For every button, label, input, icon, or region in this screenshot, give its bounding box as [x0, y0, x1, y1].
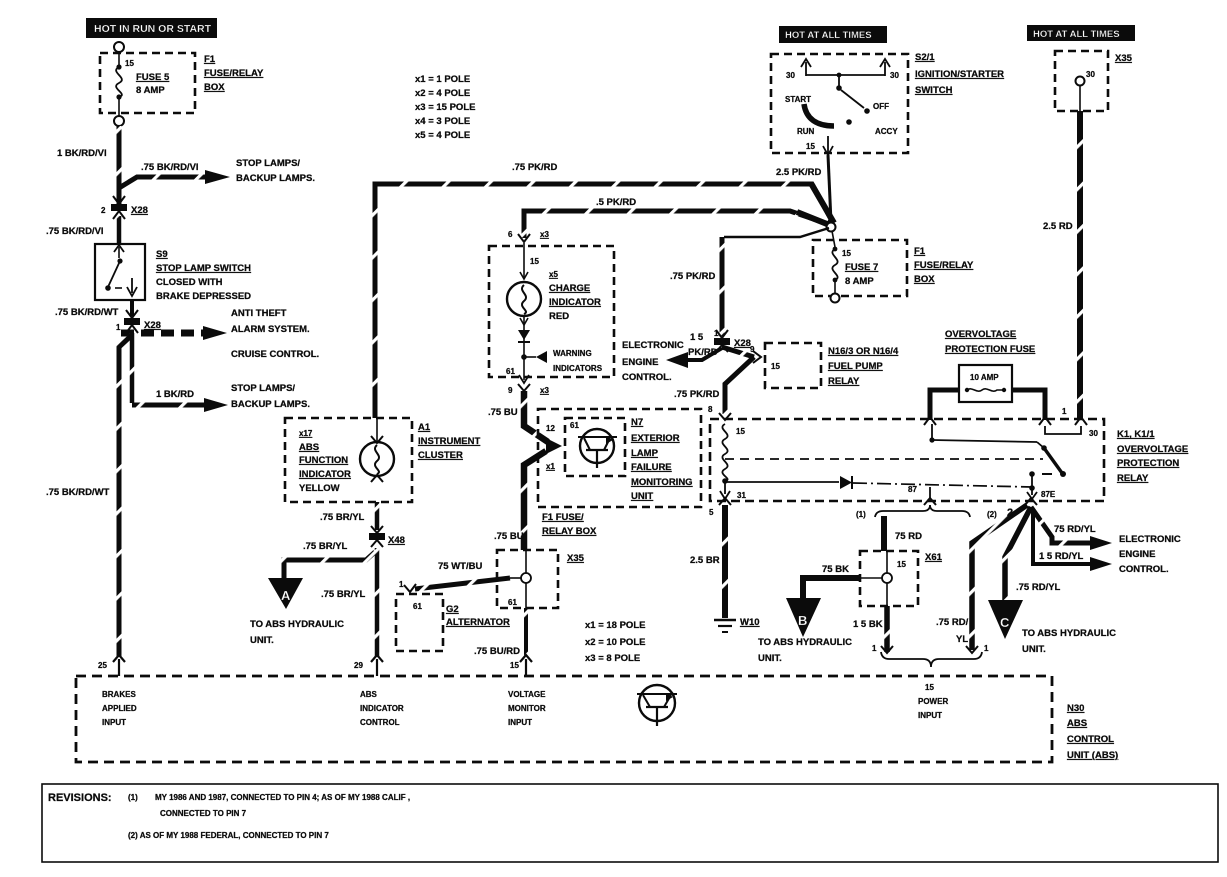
svg-text:BRAKE DEPRESSED: BRAKE DEPRESSED — [156, 291, 251, 302]
svg-text:61: 61 — [570, 421, 579, 430]
svg-text:61: 61 — [508, 598, 517, 607]
svg-text:S9: S9 — [156, 249, 168, 260]
svg-text:(2): (2) — [987, 510, 997, 519]
svg-text:8 AMP: 8 AMP — [845, 276, 874, 287]
svg-text:ELECTRONIC: ELECTRONIC — [622, 340, 684, 351]
svg-text:x3 = 15 POLE: x3 = 15 POLE — [415, 102, 475, 113]
svg-text:1: 1 — [714, 329, 719, 338]
svg-text:INDICATOR: INDICATOR — [549, 297, 601, 308]
svg-text:FAILURE: FAILURE — [631, 462, 672, 473]
svg-text:STOP LAMPS/: STOP LAMPS/ — [231, 383, 295, 394]
svg-text:YL: YL — [956, 634, 968, 645]
svg-text:RED: RED — [549, 311, 569, 322]
svg-text:1: 1 — [872, 644, 877, 653]
svg-text:X28: X28 — [144, 320, 161, 331]
svg-text:YELLOW: YELLOW — [299, 483, 340, 494]
svg-text:CONTROL: CONTROL — [1067, 734, 1114, 745]
svg-text:x1 = 18 POLE: x1 = 18 POLE — [585, 620, 645, 631]
svg-text:ACCY: ACCY — [875, 127, 898, 136]
svg-text:INDICATORS: INDICATORS — [553, 364, 603, 373]
svg-text:TO ABS HYDRAULIC: TO ABS HYDRAULIC — [250, 619, 344, 630]
svg-text:N16/3 OR N16/4: N16/3 OR N16/4 — [828, 346, 899, 357]
svg-text:X28: X28 — [734, 338, 751, 349]
svg-text:30: 30 — [1089, 429, 1098, 438]
svg-text:1: 1 — [1062, 407, 1067, 416]
svg-text:INPUT: INPUT — [508, 718, 532, 727]
svg-text:BOX: BOX — [914, 274, 935, 285]
svg-text:2: 2 — [101, 206, 106, 215]
svg-text:MY 1986 AND 1987, CONNECTED TO: MY 1986 AND 1987, CONNECTED TO PIN 4; AS… — [155, 793, 410, 802]
svg-text:75 RD: 75 RD — [895, 531, 922, 542]
svg-text:15: 15 — [510, 661, 519, 670]
svg-text:RELAY BOX: RELAY BOX — [542, 526, 597, 537]
svg-text:ENGINE: ENGINE — [1119, 549, 1155, 560]
svg-text:x4 = 3 POLE: x4 = 3 POLE — [415, 116, 470, 127]
svg-text:1: 1 — [984, 644, 989, 653]
svg-text:2.5 RD: 2.5 RD — [1043, 221, 1073, 232]
svg-text:1 5 RD/YL: 1 5 RD/YL — [1039, 551, 1084, 562]
svg-text:EXTERIOR: EXTERIOR — [631, 433, 680, 444]
svg-text:X28: X28 — [131, 205, 148, 216]
svg-text:10 AMP: 10 AMP — [970, 373, 999, 382]
svg-text:CHARGE: CHARGE — [549, 283, 590, 294]
svg-text:8 AMP: 8 AMP — [136, 85, 165, 96]
svg-text:1: 1 — [399, 580, 404, 589]
svg-text:PROTECTION FUSE: PROTECTION FUSE — [945, 344, 1035, 355]
svg-text:CLUSTER: CLUSTER — [418, 450, 463, 461]
svg-text:15: 15 — [736, 427, 745, 436]
svg-text:TO ABS HYDRAULIC: TO ABS HYDRAULIC — [758, 637, 852, 648]
svg-text:.75 BU/RD: .75 BU/RD — [474, 646, 520, 657]
svg-text:TO ABS HYDRAULIC: TO ABS HYDRAULIC — [1022, 628, 1116, 639]
svg-text:x3: x3 — [540, 230, 549, 239]
svg-text:STOP LAMPS/: STOP LAMPS/ — [236, 158, 300, 169]
svg-text:ALARM SYSTEM.: ALARM SYSTEM. — [231, 324, 310, 335]
svg-text:.75 BK/RD/WT: .75 BK/RD/WT — [46, 487, 110, 498]
svg-text:.75 RD/YL: .75 RD/YL — [1016, 582, 1061, 593]
svg-text:N30: N30 — [1067, 703, 1084, 714]
svg-text:1: 1 — [116, 323, 121, 332]
svg-text:ELECTRONIC: ELECTRONIC — [1119, 534, 1181, 545]
svg-text:C: C — [1000, 615, 1010, 630]
svg-text:15: 15 — [530, 257, 539, 266]
svg-text:61: 61 — [506, 367, 515, 376]
svg-text:87E: 87E — [1041, 490, 1056, 499]
svg-text:F1: F1 — [204, 54, 216, 65]
svg-text:S2/1: S2/1 — [915, 52, 935, 63]
svg-text:N7: N7 — [631, 417, 643, 428]
svg-text:.75 RD/: .75 RD/ — [936, 617, 969, 628]
svg-text:FUEL PUMP: FUEL PUMP — [828, 361, 883, 372]
svg-text:87: 87 — [908, 485, 917, 494]
svg-text:75 BK: 75 BK — [822, 564, 849, 575]
svg-text:APPLIED: APPLIED — [102, 704, 137, 713]
svg-text:29: 29 — [354, 661, 363, 670]
svg-text:(2) AS OF MY 1988 FEDERAL, CON: (2) AS OF MY 1988 FEDERAL, CONNECTED TO … — [128, 831, 329, 840]
svg-text:x5: x5 — [549, 270, 558, 279]
svg-text:REVISIONS:: REVISIONS: — [48, 792, 112, 804]
svg-text:.75 PK/RD: .75 PK/RD — [512, 162, 558, 173]
svg-text:F1 FUSE/: F1 FUSE/ — [542, 512, 584, 523]
svg-text:x2 = 10 POLE: x2 = 10 POLE — [585, 637, 645, 648]
svg-text:x1 = 1 POLE: x1 = 1 POLE — [415, 74, 470, 85]
svg-text:X61: X61 — [925, 552, 943, 563]
svg-text:2.5 BR: 2.5 BR — [690, 555, 720, 566]
svg-text:x1: x1 — [546, 462, 555, 471]
svg-text:x3: x3 — [540, 386, 549, 395]
svg-text:INPUT: INPUT — [918, 711, 942, 720]
svg-text:X35: X35 — [1115, 53, 1133, 64]
svg-text:12: 12 — [546, 424, 555, 433]
svg-text:CONTROL.: CONTROL. — [622, 372, 672, 383]
svg-text:CONTROL.: CONTROL. — [1119, 564, 1169, 575]
svg-text:RUN: RUN — [797, 127, 815, 136]
svg-text:30: 30 — [786, 71, 795, 80]
svg-text:F1: F1 — [914, 246, 926, 257]
svg-text:.75 BK/RD/VI: .75 BK/RD/VI — [46, 226, 104, 237]
svg-text:UNIT: UNIT — [631, 491, 653, 502]
svg-text:A1: A1 — [418, 422, 431, 433]
svg-text:PROTECTION: PROTECTION — [1117, 458, 1179, 469]
svg-text:75 RD/YL: 75 RD/YL — [1054, 524, 1096, 535]
svg-text:x2 = 4 POLE: x2 = 4 POLE — [415, 88, 470, 99]
svg-text:5: 5 — [709, 508, 714, 517]
svg-text:A: A — [281, 588, 291, 603]
svg-text:FUNCTION: FUNCTION — [299, 455, 348, 466]
svg-text:FUSE/RELAY: FUSE/RELAY — [914, 260, 974, 271]
svg-text:BOX: BOX — [204, 82, 225, 93]
svg-text:30: 30 — [890, 71, 899, 80]
svg-text:.75 BK/RD/VI: .75 BK/RD/VI — [141, 162, 199, 173]
svg-text:G2: G2 — [446, 604, 459, 615]
svg-text:X48: X48 — [388, 535, 405, 546]
svg-text:ABS: ABS — [299, 442, 319, 453]
svg-text:.75 BU: .75 BU — [488, 407, 518, 418]
svg-text:x5 = 4 POLE: x5 = 4 POLE — [415, 130, 470, 141]
svg-text:HOT AT ALL TIMES: HOT AT ALL TIMES — [1033, 29, 1120, 40]
svg-text:30: 30 — [1086, 70, 1095, 79]
svg-text:INSTRUMENT: INSTRUMENT — [418, 436, 480, 447]
svg-text:OVERVOLTAGE: OVERVOLTAGE — [945, 329, 1016, 340]
svg-text:.75 BK/RD/WT: .75 BK/RD/WT — [55, 307, 119, 318]
svg-text:(1): (1) — [128, 793, 138, 802]
svg-text:8: 8 — [708, 405, 713, 414]
svg-text:ABS: ABS — [360, 690, 378, 699]
svg-text:15: 15 — [806, 142, 815, 151]
svg-text:ALTERNATOR: ALTERNATOR — [446, 617, 510, 628]
svg-text:75 WT/BU: 75 WT/BU — [438, 561, 482, 572]
svg-text:1 BK/RD: 1 BK/RD — [156, 389, 194, 400]
svg-text:BACKUP LAMPS.: BACKUP LAMPS. — [231, 399, 310, 410]
svg-text:POWER: POWER — [918, 697, 948, 706]
svg-text:2: 2 — [1007, 507, 1013, 519]
svg-text:SWITCH: SWITCH — [915, 85, 953, 96]
svg-text:2.5 PK/RD: 2.5 PK/RD — [776, 167, 822, 178]
svg-text:FUSE/RELAY: FUSE/RELAY — [204, 68, 264, 79]
svg-text:15: 15 — [897, 560, 906, 569]
svg-text:UNIT.: UNIT. — [758, 653, 782, 664]
svg-text:31: 31 — [737, 491, 746, 500]
svg-text:UNIT.: UNIT. — [250, 635, 274, 646]
svg-text:.75 BR/YL: .75 BR/YL — [320, 512, 365, 523]
svg-text:ANTI THEFT: ANTI THEFT — [231, 308, 287, 319]
svg-text:UNIT (ABS): UNIT (ABS) — [1067, 750, 1118, 761]
svg-text:MONITORING: MONITORING — [631, 477, 693, 488]
svg-text:CONNECTED TO PIN 7: CONNECTED TO PIN 7 — [160, 809, 247, 818]
svg-text:INPUT: INPUT — [102, 718, 126, 727]
svg-text:1 5 BK: 1 5 BK — [853, 619, 883, 630]
svg-text:25: 25 — [98, 661, 107, 670]
svg-text:OVERVOLTAGE: OVERVOLTAGE — [1117, 444, 1188, 455]
svg-text:9: 9 — [750, 345, 755, 354]
svg-text:x17: x17 — [299, 429, 313, 438]
svg-text:1 5: 1 5 — [690, 332, 704, 343]
svg-text:.75 BU: .75 BU — [494, 531, 524, 542]
svg-text:.75 PK/RD: .75 PK/RD — [674, 389, 720, 400]
svg-text:LAMP: LAMP — [631, 448, 659, 459]
svg-text:IGNITION/STARTER: IGNITION/STARTER — [915, 69, 1004, 80]
svg-text:15: 15 — [125, 59, 134, 68]
svg-text:.75 PK/RD: .75 PK/RD — [670, 271, 716, 282]
svg-text:BACKUP LAMPS.: BACKUP LAMPS. — [236, 173, 315, 184]
svg-text:BRAKES: BRAKES — [102, 690, 136, 699]
svg-text:HOT IN RUN OR START: HOT IN RUN OR START — [94, 23, 212, 35]
svg-text:CLOSED WITH: CLOSED WITH — [156, 277, 223, 288]
svg-text:15: 15 — [925, 683, 934, 692]
svg-text:.5 PK/RD: .5 PK/RD — [596, 197, 636, 208]
svg-text:6: 6 — [508, 230, 513, 239]
svg-text:.75 BR/YL: .75 BR/YL — [303, 541, 348, 552]
svg-text:B: B — [798, 613, 807, 628]
svg-text:INDICATOR: INDICATOR — [360, 704, 404, 713]
svg-text:15: 15 — [771, 362, 780, 371]
svg-text:ABS: ABS — [1067, 718, 1087, 729]
svg-text:RELAY: RELAY — [1117, 473, 1149, 484]
svg-text:FUSE 7: FUSE 7 — [845, 262, 878, 273]
svg-text:START: START — [785, 95, 811, 104]
svg-text:HOT AT ALL TIMES: HOT AT ALL TIMES — [785, 30, 872, 41]
svg-text:1 BK/RD/VI: 1 BK/RD/VI — [57, 148, 107, 159]
svg-text:9: 9 — [508, 386, 513, 395]
svg-text:x3 = 8 POLE: x3 = 8 POLE — [585, 653, 640, 664]
svg-text:VOLTAGE: VOLTAGE — [508, 690, 546, 699]
svg-text:K1, K1/1: K1, K1/1 — [1117, 429, 1155, 440]
svg-text:CRUISE CONTROL.: CRUISE CONTROL. — [231, 349, 319, 360]
svg-text:X35: X35 — [567, 553, 585, 564]
svg-text:OFF: OFF — [873, 102, 889, 111]
svg-text:W10: W10 — [740, 617, 760, 628]
svg-text:UNIT.: UNIT. — [1022, 644, 1046, 655]
svg-text:.75 BR/YL: .75 BR/YL — [321, 589, 366, 600]
svg-text:INDICATOR: INDICATOR — [299, 469, 351, 480]
svg-text:CONTROL: CONTROL — [360, 718, 400, 727]
svg-text:MONITOR: MONITOR — [508, 704, 546, 713]
svg-text:FUSE 5: FUSE 5 — [136, 72, 170, 83]
svg-text:ENGINE: ENGINE — [622, 357, 658, 368]
svg-text:(1): (1) — [856, 510, 866, 519]
svg-text:STOP LAMP SWITCH: STOP LAMP SWITCH — [156, 263, 251, 274]
svg-text:WARNING: WARNING — [553, 349, 592, 358]
svg-text:61: 61 — [413, 602, 422, 611]
svg-text:RELAY: RELAY — [828, 376, 860, 387]
svg-text:15: 15 — [842, 249, 851, 258]
